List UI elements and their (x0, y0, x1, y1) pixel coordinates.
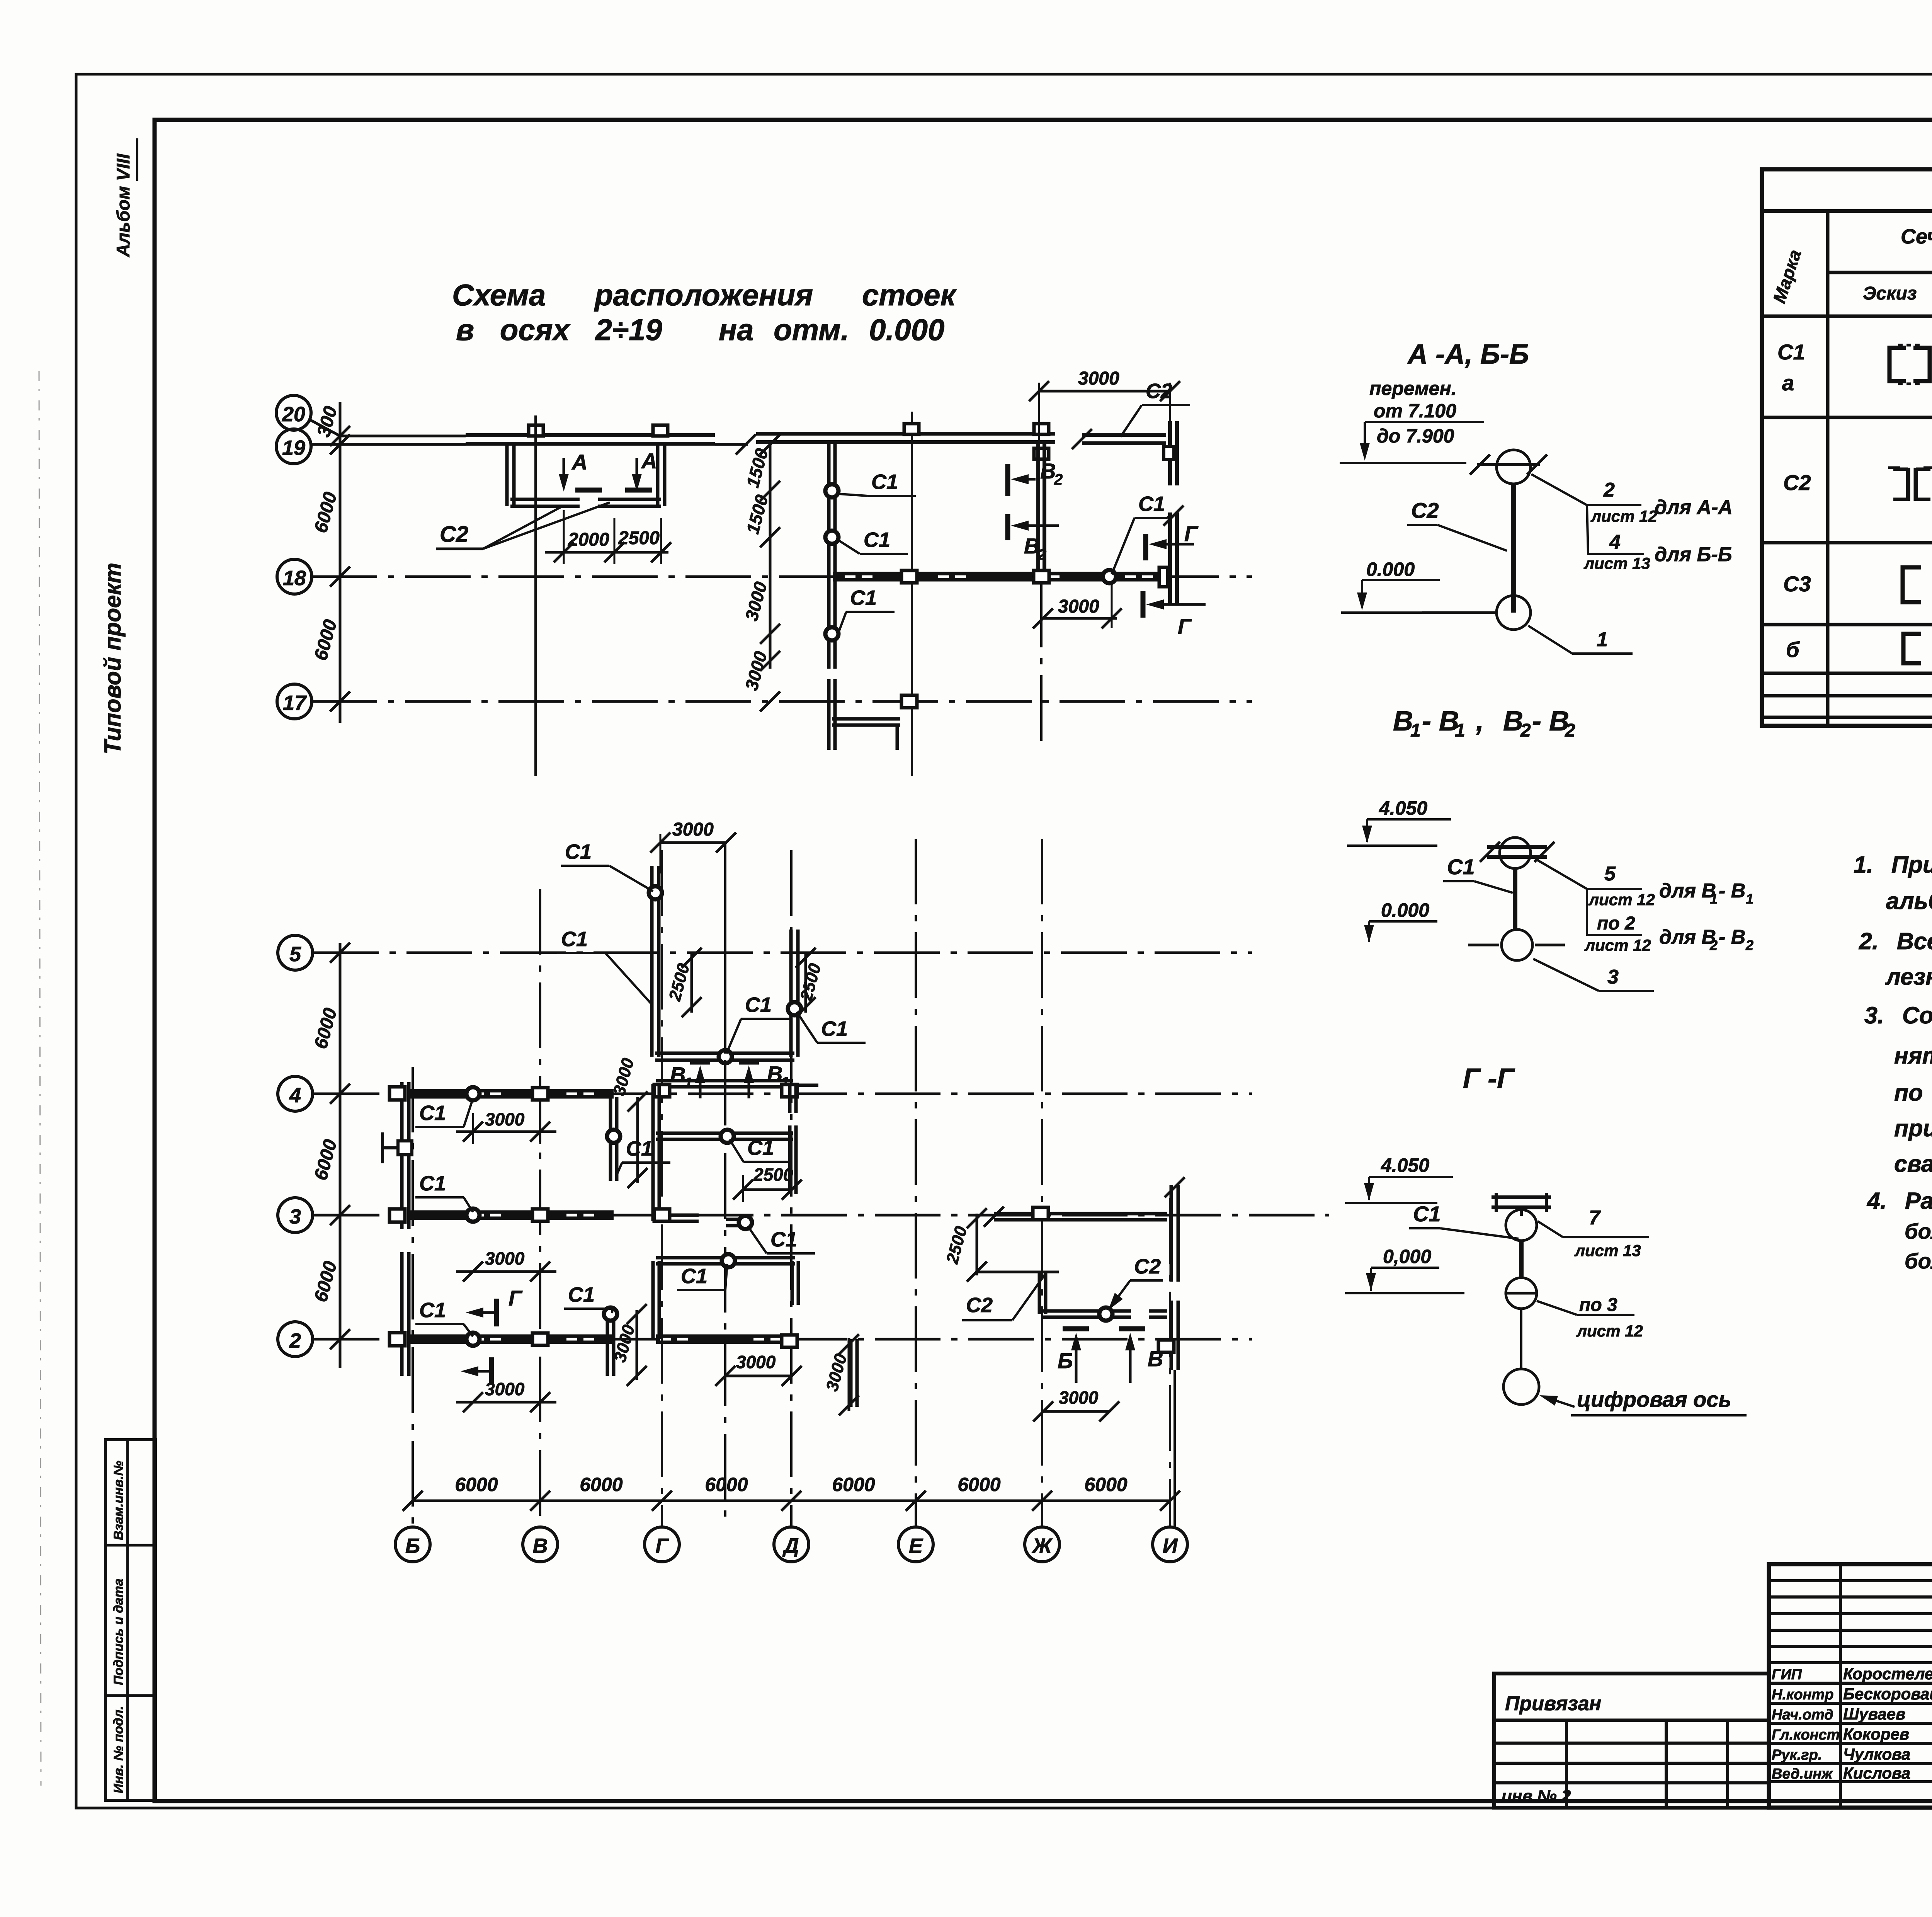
svg-text:3000: 3000 (1078, 368, 1119, 389)
svg-text:6000: 6000 (455, 1474, 498, 1495)
wall on axis Б upper (400, 1082, 404, 1229)
svg-text:4.050: 4.050 (1381, 1154, 1429, 1176)
B2 mark lower (1005, 514, 1010, 540)
svg-text:4.050: 4.050 (1379, 797, 1427, 819)
left sub table (1767, 1564, 1771, 1808)
svg-text:Инв. № подл.: Инв. № подл. (111, 1706, 126, 1793)
svg-text:лист 13: лист 13 (1583, 554, 1650, 572)
svg-text:Коростелев: Коростелев (1843, 1665, 1932, 1683)
svg-text:- В: - В (1422, 706, 1459, 737)
axis circle Д (774, 1527, 809, 1562)
section mark A left (563, 458, 565, 474)
leader 2 lист 12 для А-А (1531, 474, 1587, 505)
svg-text:Гл.конст: Гл.конст (1772, 1727, 1840, 1743)
partition C1 x2153 (827, 442, 831, 669)
svg-text:С1: С1 (1447, 855, 1475, 879)
partition B2 on axis Ж (1036, 442, 1040, 574)
svg-text:19: 19 (282, 436, 305, 460)
svg-text:цифровая ось: цифровая ось (1577, 1387, 1731, 1411)
svg-text:1: 1 (1455, 720, 1465, 741)
svg-text:Н.контр: Н.контр (1772, 1687, 1833, 1703)
svg-text:0.000: 0.000 (1366, 558, 1415, 580)
axis circle 19 (276, 429, 311, 464)
svg-text:С1: С1 (747, 1136, 774, 1159)
column flange right end (1159, 567, 1168, 587)
svg-text:по 2: по 2 (1597, 913, 1635, 934)
svg-text:3000: 3000 (736, 1352, 776, 1372)
svg-text:Е: Е (909, 1534, 923, 1558)
svg-text:С1: С1 (1413, 1202, 1441, 1226)
dim 2500 left (690, 953, 693, 1013)
partition x1588 (609, 1097, 612, 1181)
wall slab on И upper (1170, 1185, 1173, 1282)
svg-text:,: , (1476, 706, 1484, 737)
svg-text:С2: С2 (1411, 498, 1439, 523)
svg-text:17: 17 (283, 691, 307, 715)
svg-text:Схема расположения стоек: Схема расположения стоек (452, 278, 957, 312)
svg-text:Альбом VIII: Альбом VIII (113, 153, 133, 257)
svg-text:В: В (1040, 459, 1056, 483)
dim line 2000/2500 (545, 551, 668, 554)
svg-text:Нач.отд: Нач.отд (1772, 1707, 1833, 1723)
svg-text:С1: С1 (864, 528, 890, 552)
svg-text:3. Соединения стальных эл: 3. Соединения стальных элементов выпол- (1864, 1002, 1932, 1028)
svg-text:Ж: Ж (1031, 1534, 1053, 1558)
svg-text:2: 2 (289, 1329, 301, 1352)
axis 2 line (314, 1338, 1252, 1341)
svg-text:1: 1 (1410, 720, 1421, 741)
svg-text:принять по наименьшей: принять по наименьшей толщине (1894, 1115, 1932, 1141)
bottom circle цифровая ось (1503, 1369, 1539, 1405)
axis circle Ж (1025, 1527, 1060, 1562)
svg-text:2500: 2500 (753, 1165, 793, 1185)
svg-text:2: 2 (1037, 546, 1046, 563)
svg-text:от 7.100: от 7.100 (1374, 400, 1456, 422)
svg-text:лист 12: лист 12 (1584, 936, 1651, 954)
center partition line x1877 (724, 843, 726, 1054)
top node (1500, 838, 1531, 868)
svg-text:Чулкова: Чулкова (1843, 1745, 1910, 1763)
grid line E vertical (911, 412, 913, 776)
svg-text:С3: С3 (1783, 572, 1811, 596)
grid line B vertical (534, 415, 537, 776)
wall C2 on axis 19 right (1082, 433, 1166, 437)
svg-text:А: А (641, 449, 657, 473)
leaders (1535, 859, 1587, 889)
column tabs at Ж on wall (1034, 424, 1049, 434)
svg-text:4: 4 (1609, 531, 1621, 553)
svg-text:Вед.инж: Вед.инж (1772, 1766, 1833, 1782)
svg-text:7: 7 (1589, 1207, 1601, 1229)
svg-text:С1: С1 (745, 993, 772, 1016)
svg-text:по ГОСТ 9467-75, высоту св: по ГОСТ 9467-75, высоту сварных швов (1894, 1079, 1932, 1106)
svg-text:лезным суриком в 3 слоя.: лезным суриком в 3 слоя. (1885, 964, 1932, 990)
dim 3000 top (660, 841, 726, 844)
sketch C1: two channels (1889, 348, 1906, 381)
svg-text:для Б-Б: для Б-Б (1655, 543, 1732, 566)
svg-text:0,000: 0,000 (1383, 1246, 1431, 1267)
svg-text:болты 1.1 М16х300 Вст 3 кп2: болты 1.1 М16х300 Вст 3 кп2 ГОСТ380-71*-… (1905, 1249, 1932, 1273)
svg-text:3000: 3000 (1058, 596, 1099, 617)
svg-text:С1: С1 (561, 928, 588, 951)
axis 5 line (313, 952, 1252, 954)
svg-text:6000: 6000 (580, 1474, 622, 1495)
wall slab on axis И (1168, 512, 1172, 603)
svg-text:2: 2 (1709, 937, 1718, 953)
svg-text:Б: Б (405, 1534, 420, 1558)
wall slab on И lower (1170, 1301, 1173, 1370)
axis circle В (523, 1527, 558, 1562)
axis circle 20 (276, 395, 311, 430)
dim 2500 rotated (976, 1214, 978, 1275)
svg-text:Кокорев: Кокорев (1843, 1725, 1909, 1743)
svg-text:В: В (533, 1534, 548, 1558)
axis 17 center line (311, 700, 1252, 703)
axis circle Г (645, 1527, 679, 1562)
svg-text:3: 3 (289, 1205, 301, 1228)
svg-text:нять электросваркой элект: нять электросваркой электродами Э-42 (1894, 1042, 1932, 1069)
svg-text:18: 18 (283, 567, 306, 590)
svg-text:С1: С1 (419, 1172, 446, 1195)
B2 mark upper (1005, 464, 1010, 496)
axis Ж vertical in top plan (1040, 582, 1043, 752)
axis circle 3 (278, 1198, 313, 1233)
svg-text:Шуваев: Шуваев (1843, 1705, 1905, 1723)
svg-text:3000: 3000 (672, 819, 714, 840)
svg-text:Г: Г (1184, 521, 1199, 546)
svg-text:2: 2 (1603, 479, 1615, 501)
vertical dim line left (339, 943, 342, 1368)
section mark Г at axis2 left (494, 1299, 499, 1326)
middle top wall on axis 19 (756, 432, 1055, 436)
dim 3000 at axis17 (760, 624, 780, 644)
axis circle И (1153, 1527, 1187, 1562)
Б section mark (1063, 1326, 1089, 1331)
svg-text:3000: 3000 (1059, 1388, 1099, 1408)
axis circle 5 (278, 935, 313, 970)
wall on axis 3 right (994, 1212, 1167, 1216)
svg-text:3000: 3000 (485, 1248, 525, 1268)
svg-text:1: 1 (1746, 891, 1753, 907)
svg-text:2500: 2500 (618, 528, 660, 548)
svg-text:С1: С1 (419, 1102, 446, 1125)
svg-text:Сечение: Сечение (1901, 225, 1932, 248)
svg-text:- В: - В (1532, 706, 1569, 737)
dim 3000 below axis2 (725, 1375, 792, 1377)
wall on axis 19/20 (466, 433, 715, 437)
bottom dim line 6000s (413, 1500, 1170, 1502)
U-room between axes 4-5 (650, 866, 654, 1057)
wall on axis Б lower (400, 1252, 404, 1376)
svg-text:лист 12: лист 12 (1588, 890, 1655, 909)
svg-text:2: 2 (1520, 720, 1531, 741)
svg-text:6000: 6000 (832, 1474, 875, 1495)
svg-text:В: В (767, 1062, 782, 1086)
svg-text:лист 12: лист 12 (1590, 507, 1657, 525)
dim 2500 right (804, 953, 807, 1013)
main stamp (1769, 1564, 1932, 1808)
axis 4 line (314, 1093, 1252, 1095)
svg-text:Эскиз: Эскиз (1863, 283, 1917, 304)
dim 3000 below axis 18 (1043, 617, 1117, 620)
wall on axis 18 (833, 572, 1159, 575)
svg-text:С1: С1 (568, 1283, 595, 1306)
leader axis 20 (309, 419, 340, 436)
svg-text:Рук.гр.: Рук.гр. (1772, 1747, 1822, 1763)
column tab Г (653, 425, 668, 436)
svg-text:б: б (1786, 637, 1800, 662)
svg-text:на отм. 0.000: на отм. 0.000 (719, 313, 944, 347)
svg-text:а: а (1782, 371, 1794, 395)
leader 1 (1528, 626, 1572, 654)
section mark Г lower (1141, 591, 1146, 618)
rotated dim 3000 near partition (636, 1097, 639, 1183)
lower stub with C1 (726, 1218, 752, 1221)
dim 3000 top right (1039, 390, 1170, 393)
svg-text:С1: С1 (1138, 492, 1165, 516)
svg-text:6000: 6000 (1084, 1474, 1127, 1495)
sketch C2: I-profile (1906, 468, 1910, 501)
axis circle Б (395, 1527, 430, 1562)
svg-text:20: 20 (282, 403, 305, 426)
svg-text:0.000: 0.000 (1381, 899, 1429, 921)
В section mark (1119, 1326, 1145, 1331)
svg-text:Г -Г: Г -Г (1463, 1063, 1515, 1094)
svg-text:2: 2 (1745, 937, 1753, 953)
svg-text:В: В (1024, 534, 1039, 558)
svg-text:- В: - В (1719, 880, 1745, 902)
small L detail left of axis 4/3 (381, 1132, 384, 1163)
dim line 1500/1500/3000 (769, 441, 772, 669)
svg-text:Взам.инв.№: Взам.инв.№ (111, 1461, 126, 1540)
section mark A right (636, 458, 638, 474)
svg-text:2: 2 (1565, 720, 1575, 741)
table Ведомость элементов (1762, 169, 1932, 726)
axis circle 18 (277, 559, 312, 594)
svg-text:С1: С1 (419, 1299, 446, 1322)
axis 3 line (314, 1214, 1329, 1217)
svg-text:- В: - В (1719, 926, 1745, 948)
svg-text:В: В (670, 1062, 685, 1087)
svg-text:5: 5 (1604, 863, 1616, 885)
svg-text:С1: С1 (821, 1017, 848, 1040)
svg-text:лист 13: лист 13 (1574, 1241, 1641, 1260)
B1 section marks (690, 1060, 710, 1065)
partition below axis2 right (849, 1339, 853, 1407)
axis circle 17 (277, 684, 312, 719)
svg-text:альбом II листы 3÷6.: альбом II листы 3÷6. (1886, 888, 1932, 914)
svg-text:6000: 6000 (957, 1474, 1000, 1495)
svg-text:Типовой проект: Типовой проект (100, 563, 126, 754)
room A walls (505, 444, 509, 506)
svg-text:3000: 3000 (485, 1109, 525, 1129)
svg-text:2. Все стальные элементы: 2. Все стальные элементы окрасить же- (1859, 928, 1932, 954)
partition near axis 17 (827, 679, 831, 750)
column tab B (529, 425, 543, 436)
svg-text:С1: С1 (1777, 340, 1805, 364)
svg-text:свариваемых элементов.: свариваемых элементов. (1894, 1151, 1932, 1177)
vertical dim line left (339, 402, 342, 723)
svg-text:для В: для В (1659, 880, 1716, 902)
привязан table (1494, 1674, 1769, 1808)
L wall (1038, 1272, 1041, 1314)
column detail C2 (1497, 450, 1531, 484)
svg-text:Г: Г (1178, 614, 1192, 638)
dim 2500 (743, 1188, 792, 1191)
svg-text:С2: С2 (1146, 380, 1172, 403)
svg-text:В: В (1148, 1347, 1163, 1371)
partition x1580 lower (606, 1310, 609, 1376)
bottom-left rotated cells table (105, 1440, 155, 1800)
svg-text:С1: С1 (681, 1265, 707, 1288)
svg-text:2: 2 (1054, 471, 1063, 488)
wall on axis 2 left (409, 1335, 614, 1338)
axis 19 line (311, 443, 466, 446)
svg-text:6000: 6000 (705, 1474, 748, 1495)
axis circle Е (898, 1527, 933, 1562)
svg-text:ГИП: ГИП (1772, 1667, 1802, 1683)
svg-text:лист 12: лист 12 (1576, 1322, 1643, 1340)
svg-text:2000: 2000 (568, 529, 609, 550)
svg-text:1. Привязка перегородок при: 1. Привязка перегородок приведена в т.п. (1854, 851, 1932, 878)
svg-text:С1: С1 (850, 586, 877, 609)
scanner streak artifact (39, 371, 41, 1786)
letter grid verticals (412, 1067, 414, 1527)
svg-text:А: А (571, 450, 587, 474)
svg-text:Б: Б (1058, 1348, 1073, 1373)
svg-text:1: 1 (1597, 628, 1608, 651)
axis circle 4 (278, 1076, 313, 1111)
svg-text:4: 4 (289, 1084, 301, 1107)
svg-text:С2: С2 (440, 522, 468, 547)
svg-text:И: И (1163, 1534, 1178, 1558)
dim 3000 (1043, 1410, 1109, 1413)
svg-text:С1: С1 (565, 840, 592, 863)
svg-text:4. Расход болтов по л: 4. Расход болтов по листам 10÷13 (1866, 1188, 1932, 1214)
wall slab on axis И upper (1168, 421, 1172, 485)
svg-text:для А-А: для А-А (1655, 496, 1733, 519)
svg-text:С1: С1 (770, 1228, 797, 1251)
leader 3 (1533, 959, 1599, 991)
svg-text:А -А, Б-Б: А -А, Б-Б (1407, 339, 1529, 370)
svg-text:Подпись и дата: Подпись и дата (111, 1578, 126, 1685)
svg-text:Г: Г (509, 1286, 523, 1310)
svg-text:Привязан: Привязан (1505, 1692, 1601, 1715)
room Г-Д axes 2-3 (656, 1256, 795, 1260)
svg-text:С2: С2 (1783, 470, 1811, 495)
svg-text:1: 1 (684, 1075, 692, 1092)
svg-text:в осях 2÷19: в осях 2÷19 (456, 313, 662, 347)
svg-text:для В: для В (1659, 926, 1716, 948)
svg-text:С1: С1 (626, 1137, 653, 1160)
svg-text:Г: Г (655, 1534, 669, 1558)
dims 3000 left part (472, 1113, 474, 1144)
svg-text:инв.№ 2: инв.№ 2 (1502, 1787, 1571, 1806)
room Г-Д axes 3-4 (656, 1079, 793, 1083)
axis circle 2 (278, 1322, 313, 1357)
svg-text:5: 5 (289, 943, 301, 966)
leader по 3 (1537, 1301, 1577, 1315)
piece right (1149, 1309, 1167, 1313)
section mark Г upper (1143, 534, 1148, 560)
svg-text:болты 1.1 М16х400 Вст 3 кп2: болты 1.1 М16х400 Вст 3 кп2 ГОСТ380-71*-… (1905, 1219, 1932, 1243)
svg-text:С2: С2 (966, 1294, 993, 1317)
wall on axis 3 left (409, 1210, 614, 1214)
svg-text:до 7.900: до 7.900 (1377, 425, 1454, 447)
svg-text:С1: С1 (871, 470, 898, 494)
svg-text:С2: С2 (1134, 1255, 1161, 1278)
svg-text:перемен.: перемен. (1369, 378, 1457, 399)
axis 18 center line (311, 575, 1252, 578)
svg-text:Кислова: Кислова (1843, 1764, 1910, 1782)
wall on axis 4 left (409, 1089, 614, 1093)
svg-text:Д: Д (782, 1534, 799, 1558)
svg-text:по 3: по 3 (1579, 1295, 1617, 1315)
svg-text:Бескоровайный: Бескоровайный (1843, 1685, 1932, 1703)
svg-text:1: 1 (1710, 891, 1718, 907)
svg-text:3: 3 (1607, 966, 1619, 988)
